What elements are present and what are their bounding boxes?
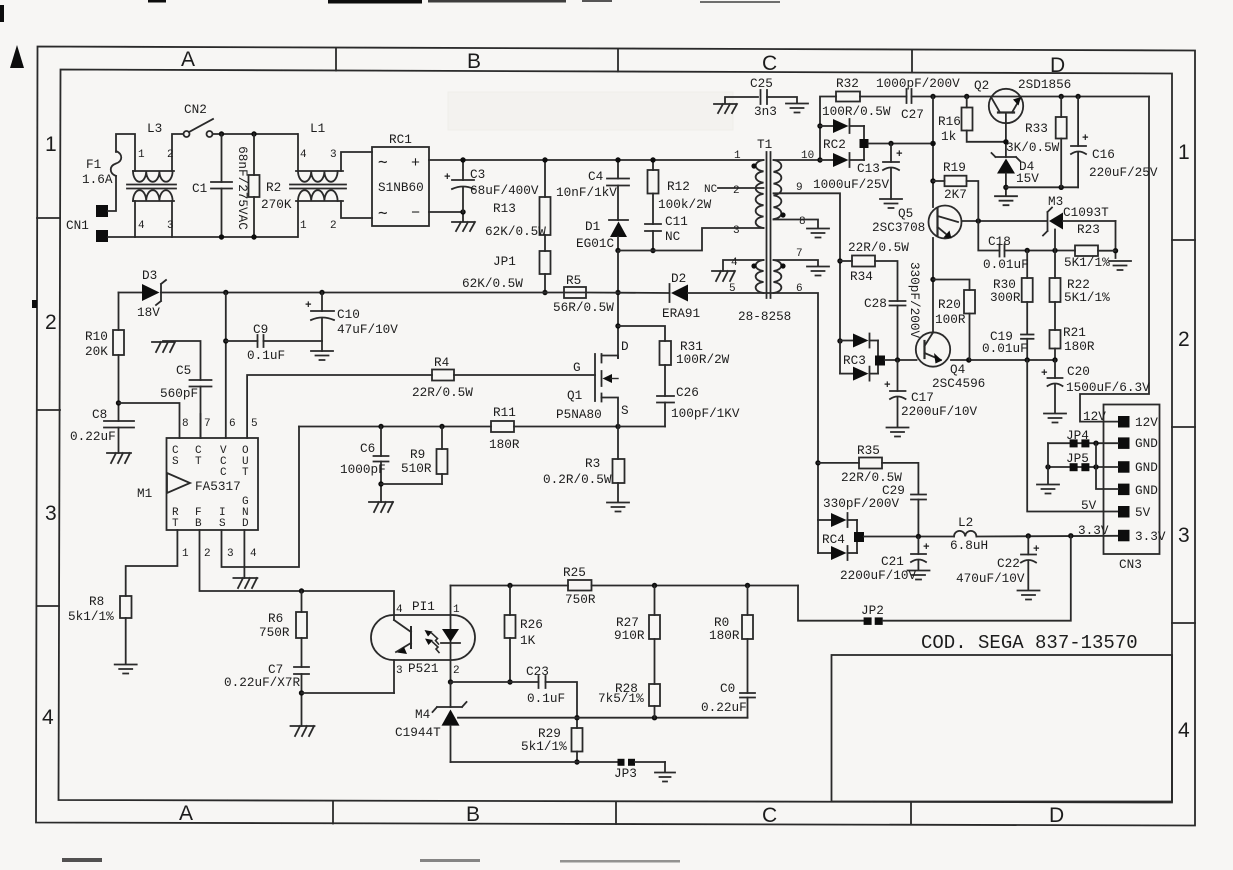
svg-text:3: 3 xyxy=(1178,524,1190,547)
wire M3 node down xyxy=(1054,230,1056,251)
svg-text:3n3: 3n3 xyxy=(754,104,777,119)
svg-text:3: 3 xyxy=(45,502,57,525)
svg-text:T: T xyxy=(242,467,249,479)
scan artifact bottom edge dash 2 xyxy=(420,859,480,862)
T1 winding dot pin8 xyxy=(780,212,785,217)
svg-text:12V: 12V xyxy=(1135,415,1158,430)
svg-text:5K1/1%: 5K1/1% xyxy=(1064,255,1110,270)
wire L1 pin4 up xyxy=(297,134,299,171)
svg-text:R19: R19 xyxy=(943,160,966,175)
svg-text:D: D xyxy=(621,339,629,354)
choke L1 core xyxy=(290,184,346,186)
svg-text:RC2: RC2 xyxy=(823,137,846,152)
registration triangle top-left xyxy=(10,45,24,68)
Q5 collector line to M3 xyxy=(962,220,1048,222)
left band divider 2/3 xyxy=(37,409,60,411)
svg-text:R34: R34 xyxy=(850,269,873,284)
svg-text:4: 4 xyxy=(300,149,307,161)
capacitor C27 xyxy=(906,89,908,103)
wire CN2 to C1 node xyxy=(213,133,298,135)
ground C7 hatched xyxy=(291,726,315,736)
svg-text:2: 2 xyxy=(204,548,211,560)
svg-text:2SC4596: 2SC4596 xyxy=(932,376,985,391)
svg-text:1: 1 xyxy=(45,133,57,156)
svg-text:M4: M4 xyxy=(415,707,430,722)
svg-text:470uF/10V: 470uF/10V xyxy=(956,571,1025,586)
wire R9 bottom to C6 bottom xyxy=(381,483,442,485)
resistor R8 xyxy=(120,596,132,618)
diode RC2 top xyxy=(820,125,833,127)
resistor R27 xyxy=(654,586,656,616)
svg-text:T: T xyxy=(172,518,179,530)
capacitor C8 xyxy=(104,420,134,422)
svg-text:C20: C20 xyxy=(1067,364,1090,379)
svg-text:62K/0.5W: 62K/0.5W xyxy=(462,276,523,291)
svg-text:∼: ∼ xyxy=(378,205,388,223)
opto light arrows xyxy=(432,634,439,645)
svg-text:0.1uF: 0.1uF xyxy=(527,691,565,706)
svg-text:2: 2 xyxy=(1178,328,1190,351)
svg-text:L2: L2 xyxy=(958,515,973,530)
wire CS pin8 to R10/C8 node xyxy=(119,403,180,438)
svg-text:1: 1 xyxy=(734,150,741,162)
junction VCC pin column top xyxy=(223,290,228,295)
capacitor C4 xyxy=(617,160,619,179)
ground C10 xyxy=(311,351,333,360)
svg-text:100k/2W: 100k/2W xyxy=(658,197,712,212)
junction C6 top xyxy=(378,424,383,429)
ground M3/R23 xyxy=(1109,261,1131,270)
svg-text:B: B xyxy=(195,518,202,530)
svg-text:1.6A: 1.6A xyxy=(82,172,113,187)
inner border frame xyxy=(59,70,1173,803)
svg-text:0.2R/0.5W: 0.2R/0.5W xyxy=(543,472,612,487)
T1 pin9 wire xyxy=(774,193,841,341)
pin 5 stub / OUT to gate xyxy=(247,375,432,438)
choke L3 lead lines xyxy=(133,170,174,172)
svg-text:1k: 1k xyxy=(941,129,956,144)
svg-text:180R: 180R xyxy=(489,437,520,452)
svg-text:CN1: CN1 xyxy=(66,218,89,233)
12V feed right side down xyxy=(1080,97,1149,422)
resistor R19 xyxy=(933,180,945,182)
svg-text:R3: R3 xyxy=(585,456,600,471)
svg-text:2: 2 xyxy=(733,185,740,197)
svg-text:1: 1 xyxy=(182,548,189,560)
capacitor C1 xyxy=(221,134,223,182)
svg-text:JP5: JP5 xyxy=(1066,451,1089,466)
svg-text:2200uF/10V: 2200uF/10V xyxy=(901,404,978,419)
pin 3 IS wire xyxy=(222,427,300,568)
svg-text:4: 4 xyxy=(1178,719,1190,742)
T1 pin6 wire down to RC4 xyxy=(764,293,819,520)
svg-text:1000uF/25V: 1000uF/25V xyxy=(813,177,890,192)
svg-text:B: B xyxy=(467,50,481,73)
svg-text:330pF/200V: 330pF/200V xyxy=(823,496,900,511)
aux rail y293 xyxy=(545,292,586,294)
svg-text:+: + xyxy=(884,380,891,392)
T1 pin10 wire xyxy=(774,159,821,161)
capacitor C28 xyxy=(890,300,906,302)
ground C8 hatched xyxy=(107,453,131,463)
svg-text:FA5317: FA5317 xyxy=(195,479,241,494)
svg-text:L3: L3 xyxy=(147,121,162,136)
ground C20 xyxy=(1044,414,1066,423)
resistor R13 xyxy=(544,160,546,197)
svg-text:R5: R5 xyxy=(566,273,581,288)
svg-text:6: 6 xyxy=(796,283,803,295)
capacitor C17 electrolytic xyxy=(897,360,899,391)
svg-text:C16: C16 xyxy=(1092,147,1115,162)
svg-text:COD. SEGA 837-13570: COD. SEGA 837-13570 xyxy=(921,632,1138,654)
svg-text:GND: GND xyxy=(1135,483,1158,498)
svg-text:L1: L1 xyxy=(310,121,325,136)
snubber rail to drain xyxy=(617,251,619,359)
svg-text:750R: 750R xyxy=(565,592,596,607)
svg-text:+: + xyxy=(896,149,903,161)
wire L1 pin1 down xyxy=(297,201,299,237)
svg-text:Q4: Q4 xyxy=(950,362,965,377)
capacitor C11 xyxy=(652,194,654,225)
svg-text:3K/0.5W: 3K/0.5W xyxy=(1006,140,1060,155)
svg-text:+: + xyxy=(411,155,420,172)
svg-text:22R/0.5W: 22R/0.5W xyxy=(412,385,473,400)
scan artifact left tick xyxy=(32,300,37,308)
svg-text:T: T xyxy=(195,456,202,468)
svg-text:5V: 5V xyxy=(1135,505,1151,520)
svg-text:−: − xyxy=(411,205,420,222)
wire CN1 top to fuse xyxy=(108,176,116,211)
svg-text:RC3: RC3 xyxy=(843,353,866,368)
T1 winding dot pin1 xyxy=(751,163,756,168)
resistor R30 xyxy=(1026,251,1028,279)
svg-text:Q1: Q1 xyxy=(567,388,582,403)
svg-text:220uF/25V: 220uF/25V xyxy=(1089,165,1158,180)
svg-text:R33: R33 xyxy=(1025,121,1048,136)
svg-text:+: + xyxy=(1082,133,1089,145)
jumper JP4 wire xyxy=(1048,442,1118,444)
scan artifact bottom edge dash 3 xyxy=(560,860,680,863)
svg-text:1000pF: 1000pF xyxy=(340,462,386,477)
jumper JP2 pads xyxy=(864,617,872,625)
T1 pin2 NC stub xyxy=(718,187,764,189)
svg-text:1K: 1K xyxy=(520,633,536,648)
ground C25 left hatched xyxy=(714,104,737,113)
svg-text:0.22uF: 0.22uF xyxy=(701,700,747,715)
optocoupler PI1 body xyxy=(371,615,475,660)
svg-text:56R/0.5W: 56R/0.5W xyxy=(553,300,614,315)
svg-text:15V: 15V xyxy=(1016,171,1039,186)
svg-text:100R/2W: 100R/2W xyxy=(676,352,730,367)
svg-text:NC: NC xyxy=(704,184,718,196)
resistor R10 xyxy=(118,293,120,331)
pin 7 stub xyxy=(200,414,202,438)
M4 anode rail to JP3 xyxy=(451,761,618,763)
pin 1 RT wire xyxy=(126,530,178,596)
capacitor C13 electrolytic xyxy=(890,144,892,163)
bottom AC rail xyxy=(108,236,297,238)
svg-text:5k1/1%: 5k1/1% xyxy=(68,609,114,624)
top band divider C/D xyxy=(911,50,913,73)
wire RC1 minus to ground xyxy=(429,212,463,221)
ground R3 xyxy=(607,503,629,512)
choke L3 core xyxy=(127,184,176,186)
svg-text:JP1: JP1 xyxy=(493,254,516,269)
ground C5 hatched xyxy=(152,342,175,352)
svg-text:4: 4 xyxy=(138,220,145,232)
wire L3 pin2 up xyxy=(172,134,183,171)
ground JP3 xyxy=(655,773,675,782)
svg-text:910R: 910R xyxy=(614,628,645,643)
svg-text:JP2: JP2 xyxy=(861,603,884,618)
svg-text:0.22uF/X7R: 0.22uF/X7R xyxy=(224,675,301,690)
svg-text:CN2: CN2 xyxy=(184,102,207,117)
svg-text:5: 5 xyxy=(729,283,736,295)
svg-text:2SD1856: 2SD1856 xyxy=(1018,77,1071,92)
svg-text:C4: C4 xyxy=(588,169,603,184)
connector CN1 pads xyxy=(96,205,108,217)
svg-text:47uF/10V: 47uF/10V xyxy=(337,322,398,337)
feedback rail R25 xyxy=(451,585,569,587)
svg-text:6.8uH: 6.8uH xyxy=(950,538,988,553)
svg-text:4: 4 xyxy=(731,257,738,269)
svg-text:1500uF/6.3V: 1500uF/6.3V xyxy=(1066,380,1150,395)
svg-text:D: D xyxy=(242,518,249,530)
resistor R12 xyxy=(652,160,654,170)
svg-text:C26: C26 xyxy=(676,385,699,400)
transistor Q2 xyxy=(989,89,1023,123)
ground R8 xyxy=(115,665,137,674)
thyristor M3 xyxy=(1043,208,1052,236)
svg-text:3: 3 xyxy=(733,225,740,237)
choke L1 bottom winding xyxy=(298,190,338,201)
resistor R26 xyxy=(509,586,511,616)
capacitor C20 electrolytic xyxy=(1054,360,1056,378)
svg-text:R13: R13 xyxy=(493,201,516,216)
svg-text:GND: GND xyxy=(1135,436,1158,451)
choke L1 top winding xyxy=(298,171,338,182)
svg-text:3: 3 xyxy=(330,149,337,161)
rectifier RC4 xyxy=(818,519,831,521)
choke L1 lead lines xyxy=(296,170,343,172)
resistor R0 xyxy=(747,586,749,616)
svg-text:5K1/1%: 5K1/1% xyxy=(1064,290,1110,305)
svg-text:M1: M1 xyxy=(137,486,152,501)
svg-text:CN3: CN3 xyxy=(1119,557,1142,572)
svg-text:2: 2 xyxy=(45,311,57,334)
svg-text:C13: C13 xyxy=(857,161,880,176)
svg-text:180R: 180R xyxy=(709,628,740,643)
svg-text:R21: R21 xyxy=(1063,325,1086,340)
jumper JP5 wire xyxy=(1048,466,1118,468)
svg-text:62K/0.5W: 62K/0.5W xyxy=(485,224,546,239)
svg-text:R25: R25 xyxy=(563,565,586,580)
resistor R16 xyxy=(966,97,968,108)
svg-text:4: 4 xyxy=(396,604,403,616)
svg-text:300R: 300R xyxy=(990,290,1021,305)
svg-text:C27: C27 xyxy=(901,107,924,122)
jumper resistor JP1 xyxy=(544,235,546,251)
svg-text:A: A xyxy=(179,802,193,825)
svg-text:20K: 20K xyxy=(85,344,108,359)
M4 ref line xyxy=(458,717,748,719)
pin 4 GND wire xyxy=(243,530,245,578)
ground C13 xyxy=(880,199,902,208)
svg-text:C25: C25 xyxy=(750,76,773,91)
svg-text:C1093T: C1093T xyxy=(1063,205,1109,220)
svg-text:D: D xyxy=(1049,804,1064,827)
svg-text:T1: T1 xyxy=(757,137,772,152)
svg-text:7k5/1%: 7k5/1% xyxy=(598,691,644,706)
wire L1 pin3 to RC1 xyxy=(341,152,372,171)
capacitor C25 with grounds xyxy=(725,97,758,103)
svg-text:22R/0.5W: 22R/0.5W xyxy=(848,240,909,255)
svg-text:18V: 18V xyxy=(137,305,160,320)
junction C1 top xyxy=(219,131,224,136)
transformer T1 core xyxy=(766,152,768,298)
svg-text:8: 8 xyxy=(799,216,806,228)
svg-text:2200uF/10V: 2200uF/10V xyxy=(840,568,917,583)
svg-text:G: G xyxy=(573,360,581,375)
svg-text:0.01uF: 0.01uF xyxy=(983,257,1029,272)
svg-text:EG01C: EG01C xyxy=(576,236,614,251)
diode D1 xyxy=(609,219,628,221)
ground C25 right xyxy=(786,104,808,113)
svg-text:F1: F1 xyxy=(86,157,101,172)
wire R19 branch down to C18 line xyxy=(978,221,999,251)
svg-text:R26: R26 xyxy=(520,617,543,632)
junction R9 top xyxy=(439,424,444,429)
svg-text:S: S xyxy=(621,403,629,418)
svg-text:+: + xyxy=(1041,368,1048,380)
resistor R33 xyxy=(1060,97,1062,118)
svg-text:R16: R16 xyxy=(938,114,961,129)
svg-text:9: 9 xyxy=(796,182,803,194)
ground C6 hatched xyxy=(369,502,393,512)
svg-text:3: 3 xyxy=(227,548,234,560)
svg-text:2: 2 xyxy=(330,220,337,232)
capacitor C16 electrolytic xyxy=(1077,97,1079,147)
svg-text:330pF/200V: 330pF/200V xyxy=(907,262,922,339)
wire VCC pin6 xyxy=(225,293,227,439)
bottom band divider A/B xyxy=(332,801,334,824)
Q4 collector wire up xyxy=(932,238,934,333)
opto pin3 wire xyxy=(393,660,395,693)
zener D3 xyxy=(142,284,160,301)
svg-text:2: 2 xyxy=(453,665,460,677)
svg-text:S: S xyxy=(219,518,226,530)
svg-text:C10: C10 xyxy=(337,307,360,322)
svg-text:D1: D1 xyxy=(585,219,600,234)
svg-text:+: + xyxy=(923,542,930,554)
choke L3 top winding xyxy=(133,171,173,182)
resistor R2 xyxy=(253,134,255,175)
rectifier RC3 xyxy=(837,338,842,343)
scan artifact bottom edge dash 1 xyxy=(62,858,102,862)
bottom band divider B/C xyxy=(615,802,617,825)
T1 pin4 wire to ground hatched xyxy=(723,260,764,271)
IC internal comparator triangle xyxy=(167,473,190,493)
scan artifact top edge dash 1 xyxy=(148,0,166,3)
opto phototransistor xyxy=(410,627,412,648)
ground RC1/C3 hatched xyxy=(452,222,475,231)
T1 winding dot pin4 xyxy=(751,263,756,268)
svg-text:5k1/1%: 5k1/1% xyxy=(521,739,567,754)
svg-text:7: 7 xyxy=(796,248,803,260)
svg-text:C1944T: C1944T xyxy=(395,725,441,740)
T1 pin8 wire to ground xyxy=(774,220,819,229)
capacitor C5 xyxy=(163,341,201,380)
T1 pin7 wire to ground xyxy=(774,260,819,266)
scan artifact top edge dash 5 xyxy=(700,1,780,3)
svg-text:6: 6 xyxy=(229,418,236,430)
capacitor C21 electrolytic xyxy=(917,537,919,555)
svg-text:PI1: PI1 xyxy=(412,599,435,614)
junction R2 top xyxy=(251,131,256,136)
transistor Q4 xyxy=(916,332,950,366)
svg-text:JP3: JP3 xyxy=(614,766,637,781)
svg-text:3: 3 xyxy=(396,665,403,677)
jumper JP3 pads xyxy=(618,759,625,766)
scan artifact left edge mark xyxy=(0,5,4,22)
svg-text:100R: 100R xyxy=(935,312,966,327)
T1 aux winding bottom-left xyxy=(756,260,764,293)
svg-text:B: B xyxy=(466,803,480,826)
RC3 output to Q4 base xyxy=(885,359,917,361)
svg-text:5V: 5V xyxy=(1081,498,1097,513)
capacitor C6 xyxy=(380,427,382,457)
opto pin2 wire xyxy=(450,660,452,682)
fuse F1 xyxy=(111,151,122,176)
resistor R5 xyxy=(564,287,586,298)
wire rail to JP2 xyxy=(798,586,864,621)
svg-text:Q5: Q5 xyxy=(898,206,913,221)
inductor L2 xyxy=(954,531,976,537)
aux/vcc rail y292 xyxy=(119,292,143,294)
svg-text:1: 1 xyxy=(138,149,145,161)
svg-text:R32: R32 xyxy=(836,76,859,91)
svg-text:R12: R12 xyxy=(667,179,690,194)
resistor R4 xyxy=(432,370,454,381)
transistor Q5 xyxy=(929,206,962,239)
svg-text:100pF/1KV: 100pF/1KV xyxy=(671,406,740,421)
resistor R3 xyxy=(617,427,619,460)
ground D4 xyxy=(995,196,1017,205)
svg-text:R11: R11 xyxy=(493,405,516,420)
scan artifact top edge dash 2 xyxy=(328,0,422,4)
svg-text:1: 1 xyxy=(1178,141,1190,164)
svg-text:+: + xyxy=(1033,544,1040,556)
resistor R23 xyxy=(1074,250,1076,252)
junction C1 bottom xyxy=(219,234,224,239)
C23 line xyxy=(451,681,539,683)
resistor R31 xyxy=(618,326,665,341)
GND bus vertical to pin4 xyxy=(1096,443,1118,489)
svg-text:3: 3 xyxy=(167,220,174,232)
top rail C27 to right corner xyxy=(912,96,1150,98)
svg-text:1: 1 xyxy=(300,220,307,232)
resistor R34 xyxy=(837,258,842,263)
resistor R32 xyxy=(836,92,860,102)
right band divider 3/4 xyxy=(1172,622,1195,624)
DC+ rail RC1 to T1 pin1 xyxy=(429,159,764,161)
resistor R6 xyxy=(301,591,303,612)
rectifier RC2 left rail xyxy=(820,97,836,161)
svg-text:+: + xyxy=(444,172,451,184)
svg-text:C: C xyxy=(762,52,777,75)
RC2 cathode rail + output node square xyxy=(863,126,865,160)
capacitor C9 xyxy=(226,340,258,342)
